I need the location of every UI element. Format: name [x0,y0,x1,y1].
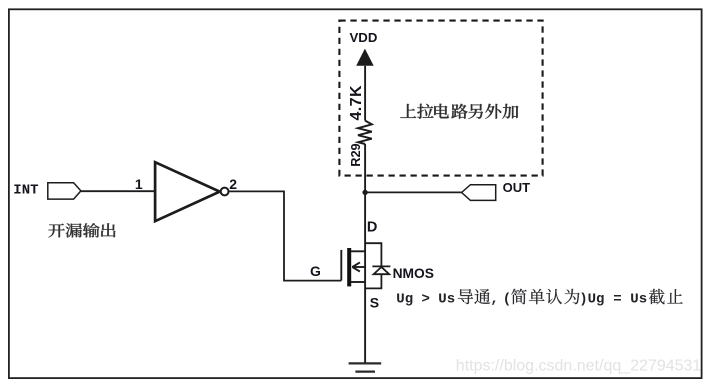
svg-text:INT: INT [13,182,38,198]
port connector INT [48,183,81,199]
port connector OUT [462,185,496,201]
label annotation 上拉电路另外加 [400,104,518,119]
wire drain to source vertical [364,192,366,363]
svg-text:(: ( [503,291,511,307]
transistor NMOS body stub with arrow [352,262,365,271]
svg-text:G: G [310,263,321,279]
ground symbol [349,363,382,371]
transistor NMOS gate lead [340,250,342,281]
svg-text:)Ug: )Ug [579,291,604,307]
svg-text:Us: Us [630,291,647,307]
label annotation 开漏输出 [48,223,115,237]
label annotation 简单认为 [511,289,579,305]
wire node to OUT port [365,191,462,193]
svg-text:D: D [367,220,377,236]
svg-text:=: = [613,291,621,307]
body diode branch [365,243,390,288]
junction dot node drain/OUT [362,190,367,195]
svg-text:S: S [370,295,379,311]
svg-text:VDD: VDD [350,30,378,45]
inverter gate [155,162,220,221]
wire resistor to drain node [364,144,366,192]
label annotation 导通 [458,289,490,304]
svg-text:NMOS: NMOS [393,266,434,281]
resistor R29 zigzag [358,121,372,144]
wire VDD to resistor [364,66,366,121]
svg-text:https://blog.csdn.net/qq_22794: https://blog.csdn.net/qq_22794531 [456,358,702,375]
svg-text:Ug > Us: Ug > Us [396,291,455,307]
transistor NMOS source stub [351,281,365,283]
label annotation 截止 [649,289,683,304]
svg-text:1: 1 [135,176,143,192]
svg-text:,: , [490,291,498,307]
wire inverter output to gate [229,191,342,280]
power symbol VDD arrow [356,49,374,66]
wire INT to inverter input [81,190,156,192]
svg-text:2: 2 [229,176,237,192]
inverter output bubble [221,188,229,196]
transistor NMOS channel bar [347,248,351,286]
svg-text:4.7K: 4.7K [348,85,365,120]
transistor NMOS drain stub [351,250,365,252]
dashed box pull-up circuit [339,21,542,176]
svg-text:R29: R29 [348,143,363,166]
svg-text:OUT: OUT [503,180,530,195]
